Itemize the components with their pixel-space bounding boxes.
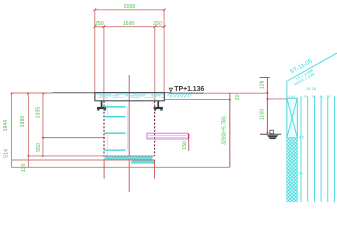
reference line a right xyxy=(204,92,267,94)
ground line xyxy=(53,92,172,94)
pipe water lines xyxy=(148,135,186,137)
pipe sleeve magenta xyxy=(147,133,188,139)
svg-text:550: 550 xyxy=(36,143,42,152)
arrow dots mid xyxy=(27,155,29,157)
pipe end dots xyxy=(188,134,190,136)
borehole column tint xyxy=(287,98,296,137)
svg-text:.30: .30 xyxy=(311,95,316,99)
seal slab hatch lower row xyxy=(131,160,155,164)
extension line right outer xyxy=(163,10,165,101)
shaft wall dashed right xyxy=(154,101,156,156)
svg-text:.35: .35 xyxy=(303,95,308,99)
support I-beam left xyxy=(97,101,106,111)
pipe end tick xyxy=(188,134,190,151)
log column line 2 xyxy=(307,96,309,202)
bottom line y3 xyxy=(12,166,230,168)
log column line 4 xyxy=(320,96,322,202)
svg-text:.20: .20 xyxy=(326,95,331,99)
dim line 250 1500 250 xyxy=(93,25,165,28)
svg-text:1.5: 1.5 xyxy=(299,135,304,139)
water hatch inside box xyxy=(97,94,163,97)
svg-text:3200(+5.7M): 3200(+5.7M) xyxy=(221,116,227,145)
left dim top line xyxy=(12,92,53,94)
benchmark datum symbol xyxy=(260,130,281,139)
svg-text:24 18: 24 18 xyxy=(306,86,317,91)
extension line left outer xyxy=(94,10,96,101)
svg-text:250: 250 xyxy=(153,21,162,27)
borehole hatch fill xyxy=(287,138,297,202)
svg-text:250: 250 xyxy=(95,21,104,27)
support I-beam right xyxy=(154,101,163,111)
svg-text:TP+1.136: TP+1.136 xyxy=(174,86,204,93)
seal slab hatch upper row xyxy=(104,156,153,160)
svg-text:20: 20 xyxy=(235,94,241,100)
bottom line y1 xyxy=(28,155,154,157)
caisson cap box xyxy=(95,93,164,101)
level symbol TP xyxy=(169,88,172,91)
borehole label underline xyxy=(286,53,337,82)
left dim arrows top xyxy=(11,93,45,95)
TP underline dark xyxy=(169,92,204,94)
svg-text:1500: 1500 xyxy=(123,21,135,27)
dim line 550 horizontal xyxy=(42,137,104,139)
centerline shaft xyxy=(128,75,130,192)
bottom wall line right xyxy=(154,160,156,179)
borehole column left edge xyxy=(286,82,288,202)
svg-text:126: 126 xyxy=(260,80,266,89)
borehole header row xyxy=(289,95,331,99)
borehole column top xyxy=(287,97,297,99)
extension line left inner xyxy=(103,27,105,101)
svg-text:1.5: 1.5 xyxy=(298,171,303,175)
reference line c right xyxy=(267,98,286,100)
log column line 5 xyxy=(327,96,329,202)
borehole X plot xyxy=(287,98,297,137)
bottom wall line left xyxy=(103,160,105,179)
dim line 3200 vertical xyxy=(229,93,231,167)
ladder zigzag xyxy=(104,107,125,150)
arrow dots 1160 line xyxy=(266,92,268,134)
dim line 126 1160 vertical xyxy=(260,78,270,134)
left dim vertical 1944 xyxy=(11,93,13,167)
log column line 3 xyxy=(313,96,315,202)
svg-text:1335: 1335 xyxy=(36,107,42,119)
extension line right inner xyxy=(154,27,156,101)
reference line b right xyxy=(165,99,230,101)
log column line 1 xyxy=(300,96,302,202)
svg-text:150: 150 xyxy=(182,141,188,150)
left dim vertical 1335 xyxy=(42,93,44,156)
svg-text:130: 130 xyxy=(21,163,27,172)
arrow dot line b end xyxy=(229,99,231,101)
dim line 2000 top xyxy=(93,8,165,11)
svg-text:1986: 1986 xyxy=(20,116,26,128)
borehole column right edge xyxy=(296,98,298,202)
bottom line y2 xyxy=(12,159,155,161)
log column line 6 xyxy=(334,96,336,202)
arrow dots 550 xyxy=(42,137,44,139)
water hatch right of box xyxy=(168,94,193,97)
shaft wall dashed left xyxy=(103,101,105,156)
svg-text:1160: 1160 xyxy=(259,109,265,120)
left dim vertical 1986 xyxy=(27,93,29,167)
svg-text:2000: 2000 xyxy=(124,4,136,10)
svg-text:514: 514 xyxy=(4,149,10,158)
svg-text:1944: 1944 xyxy=(3,120,9,132)
